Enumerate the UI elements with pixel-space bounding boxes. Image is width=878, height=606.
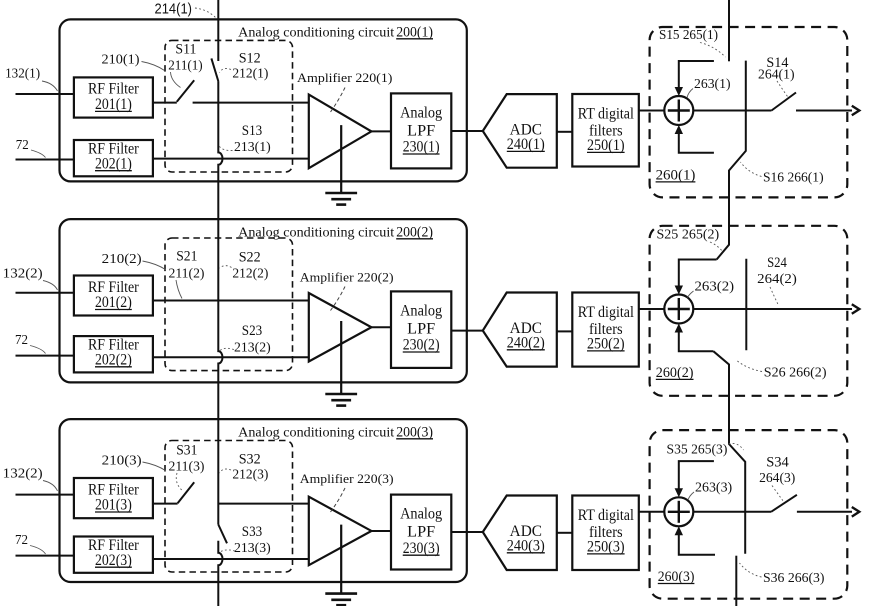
svg-text:210(2): 210(2) — [102, 252, 142, 267]
svg-text:72: 72 — [15, 333, 28, 348]
svg-text:Analog conditioning circuit: Analog conditioning circuit — [238, 24, 394, 39]
svg-text:230(3): 230(3) — [403, 540, 440, 557]
svg-text:S16 266(1): S16 266(1) — [763, 171, 824, 186]
svg-text:240(2): 240(2) — [507, 334, 545, 351]
svg-text:RT digital: RT digital — [578, 507, 634, 524]
svg-text:S13: S13 — [242, 123, 262, 139]
svg-text:230(1): 230(1) — [403, 139, 440, 156]
svg-text:201(2): 201(2) — [95, 294, 132, 311]
svg-text:264(3): 264(3) — [759, 471, 796, 486]
svg-text:264(1): 264(1) — [758, 68, 795, 83]
svg-text:212(3): 212(3) — [232, 468, 268, 483]
svg-text:210(3): 210(3) — [102, 454, 142, 469]
svg-text:72: 72 — [16, 138, 29, 153]
svg-text:Analog: Analog — [400, 506, 442, 523]
svg-text:S31: S31 — [176, 443, 197, 459]
svg-text:240(3): 240(3) — [507, 537, 545, 554]
svg-text:264(2): 264(2) — [757, 272, 797, 287]
svg-text:210(1): 210(1) — [102, 53, 140, 68]
svg-text:263(2): 263(2) — [695, 280, 735, 295]
svg-text:250(2): 250(2) — [587, 336, 625, 353]
svg-text:72: 72 — [15, 533, 28, 548]
svg-text:132(1): 132(1) — [5, 67, 40, 82]
svg-text:202(2): 202(2) — [95, 351, 132, 368]
svg-text:S26 266(2): S26 266(2) — [764, 365, 827, 380]
svg-text:S34: S34 — [766, 455, 789, 471]
svg-text:Analog conditioning circuit: Analog conditioning circuit — [238, 224, 394, 239]
svg-text:S12: S12 — [239, 51, 261, 67]
svg-text:LPF: LPF — [407, 524, 435, 541]
svg-text:263(3): 263(3) — [695, 481, 733, 496]
svg-text:263(1): 263(1) — [694, 77, 731, 92]
svg-text:213(1): 213(1) — [234, 140, 271, 155]
svg-text:202(3): 202(3) — [95, 552, 132, 569]
svg-text:201(3): 201(3) — [95, 497, 132, 514]
svg-text:Analog: Analog — [400, 104, 442, 121]
svg-text:LPF: LPF — [407, 321, 435, 338]
svg-text:201(1): 201(1) — [95, 96, 132, 113]
svg-text:S21: S21 — [176, 249, 197, 265]
svg-text:213(2): 213(2) — [234, 340, 271, 355]
svg-text:214(1): 214(1) — [155, 0, 193, 17]
svg-text:Analog: Analog — [400, 302, 442, 319]
svg-text:Amplifier 220(2): Amplifier 220(2) — [300, 270, 394, 285]
svg-text:RT digital: RT digital — [578, 304, 634, 321]
svg-text:213(3): 213(3) — [234, 541, 271, 556]
svg-text:S35 265(3): S35 265(3) — [667, 442, 728, 457]
svg-text:S22: S22 — [239, 250, 261, 266]
svg-text:Analog conditioning circuit: Analog conditioning circuit — [238, 424, 394, 439]
svg-text:260(3): 260(3) — [658, 569, 695, 585]
svg-text:250(3): 250(3) — [587, 539, 625, 556]
svg-text:132(2): 132(2) — [3, 467, 43, 482]
svg-text:212(1): 212(1) — [232, 67, 268, 82]
svg-text:LPF: LPF — [407, 123, 435, 140]
svg-text:200(3): 200(3) — [396, 424, 433, 440]
svg-text:S24: S24 — [767, 255, 787, 271]
svg-text:Amplifier 220(3): Amplifier 220(3) — [300, 471, 394, 486]
svg-text:S33: S33 — [242, 524, 262, 540]
svg-text:250(1): 250(1) — [587, 137, 625, 154]
svg-text:S15 265(1): S15 265(1) — [659, 28, 718, 43]
svg-text:211(2): 211(2) — [169, 267, 205, 282]
svg-text:Amplifier 220(1): Amplifier 220(1) — [297, 70, 392, 85]
svg-text:S36 266(3): S36 266(3) — [763, 571, 825, 586]
svg-text:S25 265(2): S25 265(2) — [657, 227, 720, 242]
svg-text:S32: S32 — [239, 452, 261, 468]
svg-text:260(2): 260(2) — [656, 365, 694, 381]
svg-text:240(1): 240(1) — [507, 136, 545, 153]
svg-text:S23: S23 — [242, 323, 262, 339]
svg-text:211(3): 211(3) — [169, 460, 205, 475]
svg-text:S11: S11 — [175, 42, 196, 58]
svg-text:200(2): 200(2) — [396, 224, 433, 240]
svg-text:RT digital: RT digital — [578, 105, 634, 122]
svg-text:212(2): 212(2) — [232, 267, 268, 282]
svg-text:260(1): 260(1) — [656, 168, 696, 184]
svg-text:202(1): 202(1) — [95, 155, 132, 172]
svg-text:230(2): 230(2) — [403, 337, 440, 354]
svg-text:132(2): 132(2) — [3, 267, 43, 282]
svg-text:211(1): 211(1) — [168, 59, 203, 74]
svg-text:200(1): 200(1) — [396, 24, 433, 40]
